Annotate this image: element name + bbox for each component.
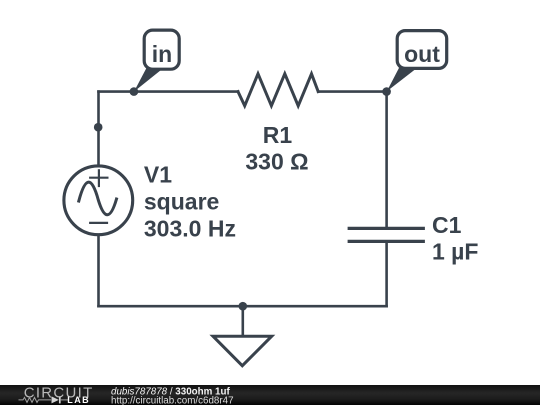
wire left vertical upper (corner to V1 top) [97,92,100,166]
node out flag box [397,31,447,69]
V1 sine wave [79,182,117,215]
ground symbol triangle [213,336,272,366]
capacitor C1 top plate [349,227,423,230]
svg-text:R1: R1 [263,122,293,148]
svg-text:1 µF: 1 µF [432,239,478,265]
svg-text:in: in [152,41,172,67]
node in junction dot [130,87,139,96]
wire right vertical lower (C1 bottom plate to bottom wire) [385,241,388,306]
capacitor C1 bottom plate [349,240,423,243]
wire top-right horizontal segment (resistor to out node) [318,90,386,93]
svg-text:303.0 Hz: 303.0 Hz [144,216,236,242]
logo diode symbol [52,396,59,403]
footer black bar [0,385,540,405]
node in flag tail [134,66,166,92]
resistor R1 zigzag [238,74,318,106]
wire ground stub [242,306,245,336]
svg-text:C1: C1 [432,212,462,238]
wire top-left horizontal segment (in node to resistor) [99,90,239,93]
wire bottom horizontal [99,305,387,308]
voltage source V1 circle [64,166,133,235]
V1 plus sign [90,170,107,186]
V1 minus sign [90,222,107,224]
ground junction dot [239,302,248,311]
logo resistor zigzag [19,397,52,402]
svg-text:square: square [144,189,219,215]
svg-text:V1: V1 [144,161,172,187]
svg-text:LAB: LAB [67,395,90,405]
svg-text:out: out [404,41,440,67]
svg-text:330 Ω: 330 Ω [245,148,308,174]
wire left vertical lower (V1 bottom to bottom wire) [97,235,100,307]
node out flag tail [387,66,420,91]
node out junction dot [382,87,391,96]
junction dot on left wire [94,123,103,132]
wire right vertical upper (out node to C1 top plate) [385,92,388,229]
svg-text:http://circuitlab.com/c6d8r47: http://circuitlab.com/c6d8r47 [111,395,234,404]
node in flag box [144,30,179,69]
